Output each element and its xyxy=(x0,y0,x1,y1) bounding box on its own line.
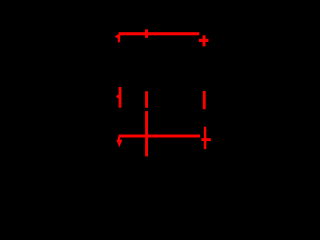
current arrow stem at left end of bottom rail xyxy=(118,137,120,141)
arrow nub on left branch stub xyxy=(116,95,119,98)
polarity + marker V2 vertical arm xyxy=(204,127,207,149)
current arrow head at left end of top rail xyxy=(115,34,120,38)
middle branch upper wire stub xyxy=(145,91,148,108)
polarity + marker V1 horizontal arm xyxy=(199,39,209,42)
wire stub below arrow head xyxy=(118,35,120,42)
junction tick node A on top rail xyxy=(145,29,148,38)
right branch wire stub xyxy=(203,91,206,109)
current arrow head pointing down xyxy=(116,140,122,148)
left branch wire stub xyxy=(119,87,122,108)
wire top rail xyxy=(119,32,200,35)
middle branch lower wire stub xyxy=(145,111,148,156)
wire bottom rail xyxy=(119,135,200,138)
polarity + marker V2 horizontal arm xyxy=(201,138,211,141)
polarity + marker V1 vertical arm xyxy=(203,35,206,46)
